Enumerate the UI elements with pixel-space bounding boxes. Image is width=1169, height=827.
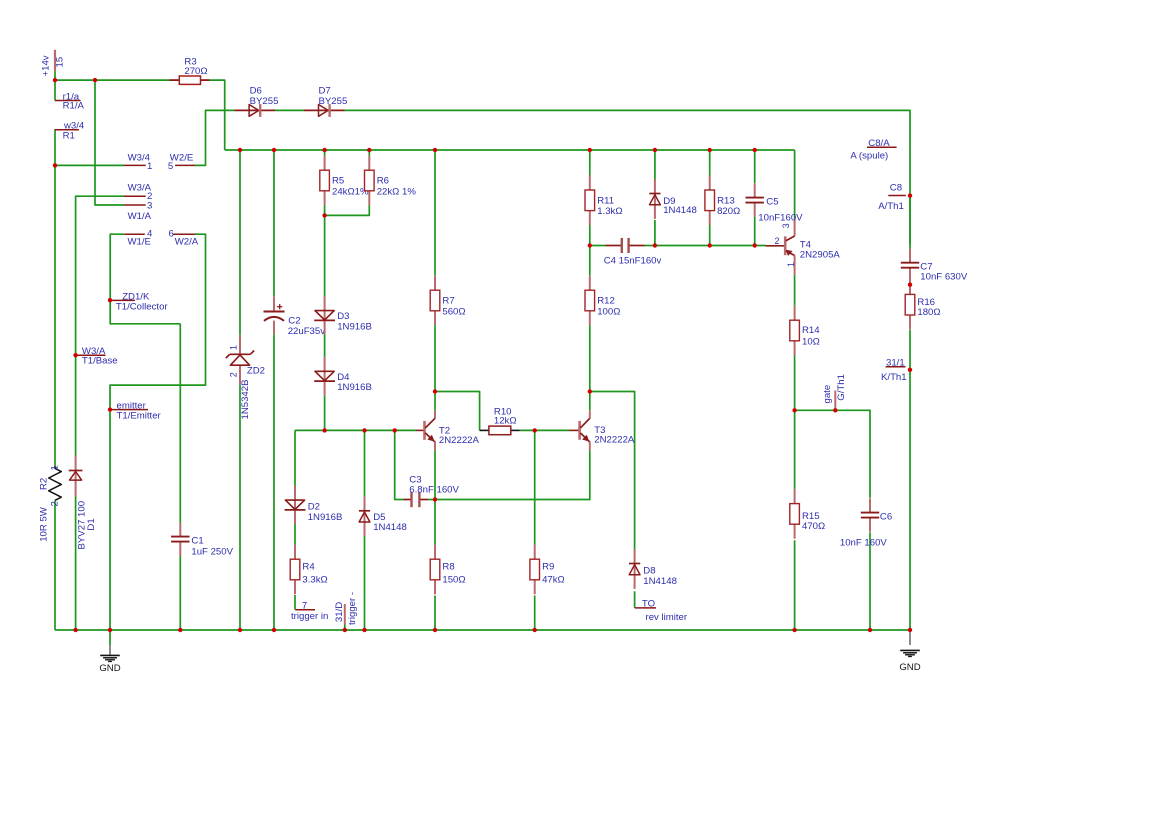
svg-text:2: 2 — [775, 236, 780, 246]
junction (794.6,630) — [792, 628, 796, 632]
svg-text:ZD2: ZD2 — [247, 365, 265, 376]
svg-text:10nF160V: 10nF160V — [758, 212, 803, 223]
svg-text:C6: C6 — [880, 512, 892, 523]
resistor R3 — [170, 57, 210, 85]
svg-text:D1: D1 — [86, 518, 97, 530]
resistor R10 — [480, 407, 520, 435]
svg-text:BY255: BY255 — [250, 96, 279, 107]
ground GND left — [99, 630, 120, 674]
svg-text:1N916B: 1N916B — [337, 382, 372, 393]
wire R13 rail — [709, 150, 711, 246]
capacitor C5 — [746, 183, 804, 223]
svg-text:15: 15 — [55, 57, 66, 68]
svg-text:D8: D8 — [643, 566, 655, 577]
junction (435,630) — [433, 628, 437, 632]
junction (870,630) — [868, 628, 872, 632]
wire C4 right to D9 node — [645, 245, 655, 247]
svg-text:rev limiter: rev limiter — [646, 612, 688, 623]
junction (95,80.1) — [93, 78, 97, 82]
wire R10 to R9/T3 base node — [520, 429, 570, 431]
wire C3 right to T3 emitter riser — [428, 450, 590, 499]
wire +14v top rail y=80 — [55, 79, 170, 81]
svg-text:1uF 250V: 1uF 250V — [191, 547, 233, 558]
svg-text:A (spule): A (spule) — [850, 151, 888, 162]
svg-text:10nF 630V: 10nF 630V — [920, 271, 968, 282]
wire C6 to ground — [869, 532, 871, 630]
svg-text:12kΩ: 12kΩ — [494, 416, 517, 427]
wire +14v to label node y=165 — [54, 71, 56, 100]
junction (110,409.6) — [108, 407, 112, 411]
svg-text:W2/E: W2/E — [170, 153, 193, 164]
svg-text:GND: GND — [99, 663, 120, 674]
label C8/A A (spule) — [850, 138, 896, 162]
label TO rev limiter — [635, 599, 688, 624]
svg-text:22uF35v: 22uF35v — [288, 326, 326, 337]
svg-text:10Ω: 10Ω — [802, 337, 820, 348]
svg-text:1: 1 — [786, 262, 796, 267]
svg-text:+14v: +14v — [41, 55, 52, 76]
label W3/4 pin 1 — [124, 153, 151, 166]
wire D9 rail — [654, 150, 656, 246]
svg-text:D6: D6 — [250, 86, 262, 97]
label emitter T1/Emitter — [110, 401, 162, 422]
junction (364.5,430.4) — [362, 428, 366, 432]
svg-text:R6: R6 — [377, 176, 389, 187]
diode D1 BYV27 — [69, 456, 97, 550]
wire D8 to TO label — [634, 591, 636, 608]
svg-text:R8: R8 — [442, 561, 454, 572]
wire W2/E riser to diode line — [195, 110, 235, 165]
wire C3 node to R8 to ground — [434, 500, 436, 631]
junction (589.8,391.5) — [588, 389, 592, 393]
diode D3 — [314, 296, 372, 334]
diode D8 — [629, 549, 677, 589]
junction (274,150) — [272, 148, 276, 152]
svg-text:1: 1 — [229, 345, 239, 350]
junction (910,630) — [908, 628, 912, 632]
svg-text:R14: R14 — [802, 325, 820, 336]
svg-text:K/Th1: K/Th1 — [881, 372, 907, 383]
svg-text:1N4148: 1N4148 — [643, 576, 677, 587]
junction (55,165.4) — [53, 163, 57, 167]
junction (910,195.6) — [908, 193, 912, 197]
label 31/D trigger- — [334, 592, 358, 630]
junction (654.9,245.5) — [653, 243, 657, 247]
label W2/E pin 5 — [170, 153, 195, 166]
svg-text:R13: R13 — [717, 195, 735, 206]
svg-text:150Ω: 150Ω — [442, 574, 465, 585]
svg-text:10R 5W: 10R 5W — [39, 506, 50, 542]
junction (240,630) — [238, 628, 242, 632]
svg-text:4: 4 — [147, 228, 153, 239]
svg-text:C1: C1 — [191, 536, 203, 547]
svg-text:1N916B: 1N916B — [308, 512, 343, 523]
diode D2 — [285, 486, 343, 524]
svg-text:31/1: 31/1 — [886, 357, 905, 368]
wire R3 to corner x=224.7 — [210, 80, 225, 150]
junction (534.7,630) — [533, 628, 537, 632]
label w3/4 R1 — [55, 121, 85, 142]
wire R9 branch — [534, 430, 536, 630]
svg-text:T1/Base: T1/Base — [82, 356, 118, 367]
svg-text:R4: R4 — [302, 561, 315, 572]
junction (654.9,150) — [653, 148, 657, 152]
svg-text:G/Th1: G/Th1 — [836, 374, 847, 401]
wire between D6 and D7 — [275, 109, 304, 111]
wire T2 emitter down to C3 node — [434, 450, 436, 499]
junction (55,80.1) — [53, 78, 57, 82]
svg-text:820Ω: 820Ω — [717, 206, 740, 217]
wire R14 to gate node — [794, 354, 796, 411]
svg-text:3: 3 — [781, 223, 791, 228]
wire R5/R6 junction to D3 D4 chain to base line — [324, 215, 326, 430]
svg-text:C2: C2 — [288, 316, 300, 327]
wire C4 node to R12 — [589, 246, 591, 276]
wire R7 rail — [434, 150, 436, 392]
transistor T3 2N2222A — [570, 410, 635, 450]
svg-text:1N916B: 1N916B — [337, 321, 372, 332]
label W3/A pin 2 — [124, 183, 152, 197]
wire D5 branch — [364, 430, 366, 630]
wire bus end down to T4 collector — [794, 150, 796, 219]
svg-text:trigger in: trigger in — [291, 611, 328, 622]
junction (709.7,150) — [708, 148, 712, 152]
svg-text:22kΩ 1%: 22kΩ 1% — [377, 186, 417, 197]
wire W3/A label to x=75.6 rail — [76, 196, 124, 455]
junction (274,630) — [272, 628, 276, 632]
wire C3 branch from base line — [395, 430, 404, 499]
resistor R11 — [585, 176, 623, 226]
diode D7 — [304, 86, 347, 117]
svg-text:R2: R2 — [39, 478, 50, 490]
wire R11 rail bus to C4 line — [589, 150, 591, 246]
junction (435,391.5) — [433, 389, 437, 393]
svg-text:1.3kΩ: 1.3kΩ — [597, 206, 622, 217]
diode D6 — [235, 86, 279, 117]
svg-text:2N2905A: 2N2905A — [800, 250, 841, 261]
svg-text:100Ω: 100Ω — [597, 306, 620, 317]
svg-text:R11: R11 — [597, 195, 614, 206]
junction (344.8,630) — [343, 628, 347, 632]
svg-text:270Ω: 270Ω — [184, 66, 207, 77]
svg-text:47kΩ: 47kΩ — [542, 574, 565, 585]
svg-text:3.3kΩ: 3.3kΩ — [302, 574, 327, 585]
svg-text:R12: R12 — [597, 296, 615, 307]
wire R6 rail — [325, 150, 370, 215]
wire R16 to K/Th1 node to ground corner — [909, 330, 911, 630]
junction (324.6,430.4) — [322, 428, 326, 432]
resistor R2 (10R 5W) — [39, 465, 62, 542]
resistor R6 — [365, 156, 417, 206]
junction (75.6,630) — [73, 628, 77, 632]
svg-text:GND: GND — [899, 662, 920, 673]
resistor R12 — [585, 276, 620, 326]
wire R5 rail — [324, 150, 326, 215]
junction (589.8,150) — [588, 148, 592, 152]
transistor T4 2N2905A — [766, 219, 841, 275]
junction (910,369.8) — [908, 368, 912, 372]
capacitor C1 plates — [171, 522, 234, 557]
wire main bus y=150 — [225, 149, 795, 151]
junction (110,300.2) — [108, 298, 112, 302]
junction (364.5,630) — [362, 628, 366, 632]
diode D9 — [649, 179, 697, 219]
wire w3/4 label to node — [54, 130, 56, 466]
svg-text:T1/Collector: T1/Collector — [116, 301, 169, 312]
wire ZD2 rail — [239, 150, 241, 630]
junction (534.7,430.4) — [533, 428, 537, 432]
label 7 trigger in — [291, 601, 328, 623]
svg-text:6.8nF 160V: 6.8nF 160V — [409, 485, 459, 496]
junction (794.6,410.3) — [792, 408, 796, 412]
svg-text:D2: D2 — [308, 501, 320, 512]
ground GND right — [899, 630, 920, 673]
wire base line corner to D2 R4 — [294, 430, 296, 609]
svg-text:R9: R9 — [542, 561, 554, 572]
resistor R14 — [790, 306, 820, 356]
resistor R16 — [905, 280, 940, 330]
svg-text:R7: R7 — [442, 296, 454, 307]
wire gate node to R15 to ground — [794, 410, 796, 630]
label W3/A T1/Base — [76, 346, 118, 367]
wire C1 rail — [179, 324, 181, 630]
svg-text:2N2222A: 2N2222A — [439, 435, 480, 446]
junction (110,630) — [108, 628, 112, 632]
wire C8 node to C7 — [909, 196, 911, 249]
resistor R7 — [430, 276, 465, 326]
zener ZD2 — [226, 335, 265, 419]
junction (435,499.5) — [433, 497, 437, 501]
wire ground bus — [55, 629, 910, 631]
wire T4 emitter to R14 — [794, 275, 796, 306]
wire T2 collector stub — [434, 392, 436, 411]
svg-text:T1/Emitter: T1/Emitter — [117, 410, 162, 421]
resistor R15 — [790, 489, 825, 539]
capacitor C7 — [901, 249, 968, 283]
svg-text:2: 2 — [229, 372, 239, 377]
wire D1 to ground bus — [75, 497, 77, 631]
svg-text:A/Th1: A/Th1 — [878, 201, 904, 212]
svg-text:W1/A: W1/A — [128, 211, 152, 222]
label gate G/Th1 — [822, 374, 847, 410]
label 31/1 K/Th1 — [881, 357, 907, 383]
svg-text:7: 7 — [302, 601, 307, 612]
label W1/E pin 4 — [124, 234, 151, 247]
svg-text:1N4148: 1N4148 — [663, 205, 697, 216]
wire W1/E label rail to ZD1/K node — [110, 234, 180, 324]
svg-text:560Ω: 560Ω — [442, 306, 465, 317]
label W2/A pin 6 — [173, 234, 199, 247]
junction (835.3,410.3) — [833, 408, 837, 412]
wire gate node to C6 branch — [795, 410, 870, 498]
label ZD1/K T1/Collector — [110, 292, 168, 313]
wire C2 rail — [273, 150, 275, 630]
resistor R8 — [430, 545, 465, 595]
label W1/A pin 3 — [124, 205, 152, 222]
capacitor C6 — [840, 498, 892, 548]
wire C5 rail — [754, 150, 756, 246]
junction (754.7,150) — [753, 148, 757, 152]
wire x=95 riser to W1/A label — [95, 80, 124, 205]
svg-text:R1/A: R1/A — [63, 100, 85, 111]
svg-text:C4 15nF160v: C4 15nF160v — [604, 256, 662, 267]
junction (75.6,355.2) — [73, 353, 77, 357]
svg-text:6: 6 — [168, 228, 173, 239]
svg-text:C5: C5 — [766, 196, 778, 207]
svg-text:D7: D7 — [319, 86, 331, 97]
junction (240,150) — [238, 148, 242, 152]
junction (180.3,630) — [178, 628, 182, 632]
svg-text:trigger -: trigger - — [347, 592, 358, 625]
label r1/a R1/A — [55, 92, 85, 112]
svg-text:180Ω: 180Ω — [917, 307, 940, 318]
wire base line of T4 y=245.5 — [655, 245, 766, 247]
svg-text:BY255: BY255 — [319, 96, 348, 107]
svg-text:3: 3 — [147, 200, 152, 211]
svg-text:24kΩ1%: 24kΩ1% — [332, 186, 369, 197]
capacitor C4 — [604, 238, 662, 267]
svg-text:1: 1 — [50, 465, 61, 470]
svg-text:1N4148: 1N4148 — [373, 522, 407, 533]
svg-text:R1: R1 — [63, 131, 75, 142]
wire W2/A label rail to emitter node — [110, 234, 206, 630]
diode D4 — [314, 357, 372, 395]
svg-text:C8: C8 — [890, 182, 902, 193]
svg-text:R5: R5 — [332, 176, 344, 187]
label C8 A/Th1 — [878, 182, 906, 211]
junction (910,284.7) — [908, 283, 912, 287]
svg-text:TO: TO — [642, 599, 655, 610]
wire R12 to T3 collector node — [589, 325, 591, 410]
wire C4 left stub — [590, 245, 606, 247]
svg-text:5: 5 — [168, 161, 173, 172]
wire T2 collector jumper to R10 — [435, 392, 480, 431]
junction (589.8,245.5) — [588, 243, 592, 247]
junction (435,150) — [433, 148, 437, 152]
capacitor C3 — [404, 474, 460, 507]
svg-text:2N2222A: 2N2222A — [594, 435, 635, 446]
diode D5 — [359, 497, 407, 537]
transistor T2 2N2222A — [416, 410, 480, 450]
wire D7 to top-right corner x=910 — [345, 110, 911, 244]
junction (324.6,215.4) — [322, 213, 326, 217]
resistor R4 — [290, 545, 328, 595]
resistor R5 — [320, 156, 369, 206]
svg-text:2: 2 — [50, 501, 61, 506]
power flag +14v — [41, 50, 66, 77]
capacitor C2 electrolytic — [264, 296, 326, 337]
wire node to W3/4 label — [55, 164, 124, 166]
junction (369.3,150) — [367, 148, 371, 152]
svg-text:470Ω: 470Ω — [802, 521, 825, 532]
junction (754.7,245.5) — [753, 243, 757, 247]
svg-text:1: 1 — [147, 161, 152, 172]
resistor R13 — [705, 176, 740, 226]
svg-text:gate: gate — [822, 385, 833, 404]
svg-text:31/D: 31/D — [334, 602, 345, 622]
junction (324.6,150) — [322, 148, 326, 152]
wire T2 base line — [295, 429, 416, 431]
svg-text:10nF 160V: 10nF 160V — [840, 537, 888, 548]
junction (709.7,245.5) — [708, 243, 712, 247]
wire left rail to ground bus — [54, 501, 56, 631]
svg-text:C8/A: C8/A — [868, 138, 890, 149]
wire T3 collector node to D8 branch — [590, 392, 635, 550]
resistor R9 — [530, 545, 565, 595]
junction (394.7,430.4) — [393, 428, 397, 432]
svg-text:1N5342B: 1N5342B — [240, 379, 251, 419]
svg-text:W2/A: W2/A — [175, 236, 199, 247]
